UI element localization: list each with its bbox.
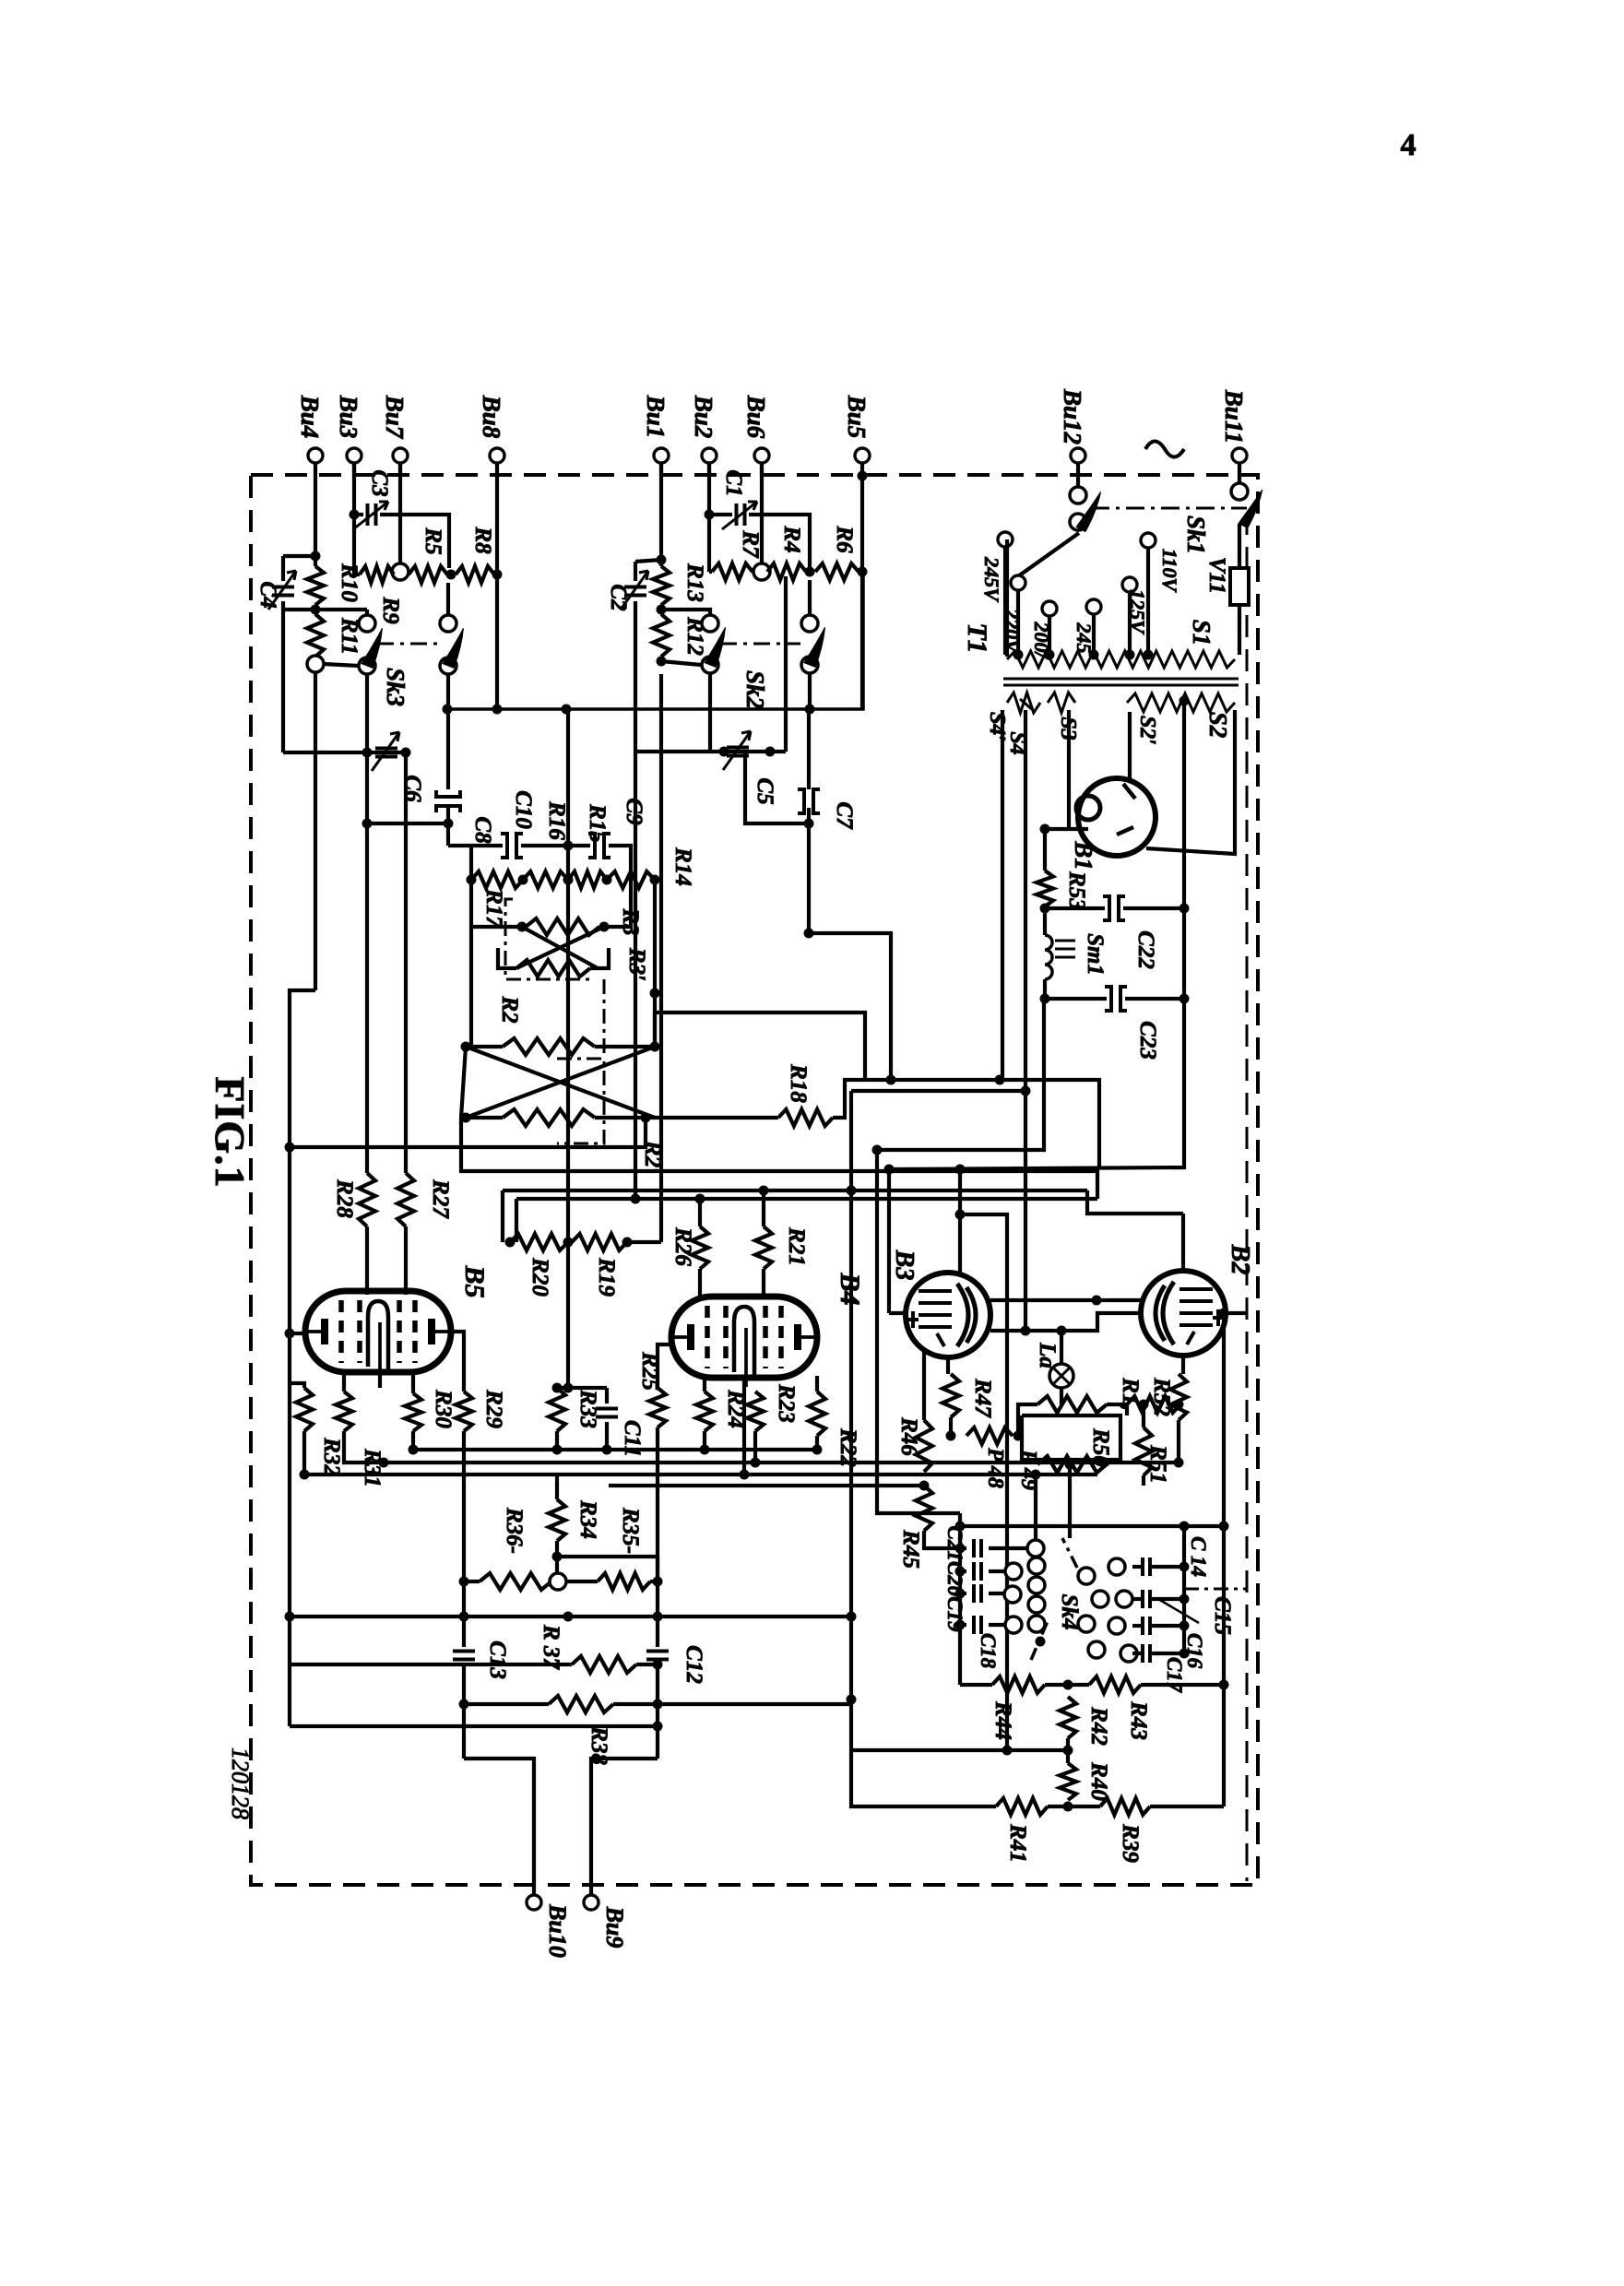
wire contact-b up — [808, 580, 812, 615]
wire Bu2 down — [707, 463, 711, 515]
wire C23 right — [1125, 997, 1184, 1001]
svg-text:R20: R20 — [528, 1257, 552, 1297]
wire Bu3 down — [352, 463, 356, 515]
switch Sk3 contact b — [440, 615, 456, 632]
wire C6 row — [283, 751, 406, 754]
svg-text:T1: T1 — [962, 622, 992, 653]
wire R24 bottom — [703, 1431, 706, 1450]
capacitor C6 — [375, 749, 397, 757]
node rail1753 left — [285, 1612, 295, 1622]
node mid 1410 — [1092, 1296, 1102, 1306]
wire R26 bottom — [698, 1269, 702, 1297]
svg-text:R3′: R3′ — [624, 947, 649, 981]
wire B5 left lead — [290, 1332, 307, 1335]
node R15b — [563, 875, 574, 885]
wire R37 right — [636, 1663, 658, 1666]
node bus1599 x1123 — [1031, 1470, 1041, 1480]
node bank top left — [955, 1522, 966, 1532]
node row left — [467, 875, 477, 885]
node rail1244 join R2p — [641, 1113, 651, 1123]
node C5 left — [719, 747, 729, 757]
node bus1572 R33 — [552, 1445, 563, 1455]
node R12 bottom — [657, 657, 667, 667]
tap circle 245V — [998, 532, 1013, 547]
svg-text:R17: R17 — [481, 888, 506, 929]
switch Sk2 contact b — [801, 615, 818, 632]
node R47 bottom — [946, 1431, 956, 1441]
wire Bu12 down — [1076, 463, 1080, 488]
node R26 top — [695, 1194, 705, 1204]
svg-text:B3: B3 — [890, 1250, 919, 1281]
rail y1300 left leg — [515, 1199, 518, 1242]
resistor R28 — [359, 1173, 375, 1226]
wire to B5 plate rail — [290, 990, 315, 1147]
svg-text:R52: R52 — [1149, 1377, 1174, 1416]
capacitor C22 — [1103, 896, 1109, 920]
wire C12 down — [656, 1663, 659, 1759]
node R20/R19 — [563, 1238, 574, 1248]
svg-text:R7: R7 — [738, 529, 763, 559]
switch Sk3 pivot a — [359, 657, 375, 674]
wire R2 loop to harness — [655, 1013, 865, 1080]
wire Bu3 to chain — [352, 515, 356, 574]
terminal Bu5 — [855, 448, 870, 463]
wire R3 left up — [471, 925, 522, 929]
wire C7 line to harness — [809, 933, 891, 1080]
capacitor C13 — [453, 1652, 475, 1660]
svg-text:V11: V11 — [1204, 557, 1229, 594]
wire R2 left stub — [466, 1045, 503, 1048]
wire C8node to C10 — [448, 844, 503, 847]
capacitor C21 — [974, 1539, 981, 1558]
switch Sk1 contact a — [1070, 487, 1086, 503]
svg-text:R21: R21 — [784, 1226, 809, 1266]
svg-text:La: La — [1035, 1342, 1060, 1368]
node bus/Bu8 — [492, 705, 503, 715]
wire R51 bottom — [1142, 1475, 1145, 1486]
svg-text:Bu8: Bu8 — [478, 395, 505, 439]
wire La down — [1060, 1388, 1063, 1404]
node R50 mid — [1065, 1460, 1075, 1470]
node right bank top — [1179, 1522, 1190, 1532]
svg-text:R23: R23 — [774, 1383, 799, 1423]
resistor R53 — [1037, 871, 1053, 906]
node bus/SK2pivot — [805, 705, 815, 715]
node right bank 1793 — [1179, 1649, 1190, 1659]
wire S2p to B1 top — [1128, 712, 1132, 782]
resistor R6 — [815, 563, 859, 580]
node C13 top — [459, 1612, 469, 1622]
wire bus to C7 — [807, 709, 811, 789]
node P48 right — [1014, 1431, 1024, 1441]
terminal Bu12 — [1071, 448, 1085, 463]
node R52 bus — [1174, 1458, 1184, 1468]
wire Bu1 down — [659, 463, 663, 566]
capacitor C15 — [1143, 1590, 1150, 1608]
wire C1 right lead — [749, 515, 810, 568]
transformer T1 secondary S2 — [1127, 693, 1235, 712]
wire R27 down to B5 — [404, 1226, 408, 1295]
resistor R22 — [809, 1392, 825, 1436]
resistor R45 — [916, 1486, 932, 1531]
node bus/CapC8line — [443, 705, 453, 715]
wire C5 right up to chain — [784, 576, 788, 752]
resistor R10 — [307, 566, 324, 605]
wire Bu2 to chain — [707, 515, 711, 572]
resistor R15b — [568, 871, 607, 888]
wire block left rail2 — [877, 1150, 960, 1513]
wire bank top rail — [960, 1524, 1184, 1528]
triode B2 — [1141, 1271, 1226, 1356]
capacitor C23 — [1105, 987, 1111, 1011]
wire tap 245V — [1003, 547, 1007, 655]
terminal Bu2 — [702, 448, 717, 463]
wire R28 down to B5 — [365, 1226, 369, 1295]
node right bank 1699 — [1179, 1562, 1190, 1572]
wire anode branch right — [960, 1214, 1007, 1750]
rail y1244 — [290, 1118, 646, 1147]
wire Bu11 down — [1238, 463, 1241, 484]
wire R12 to pivot a — [661, 661, 701, 665]
svg-text:R22: R22 — [836, 1427, 860, 1467]
node rail1753 right — [847, 1612, 857, 1622]
rail y1753 — [290, 1615, 851, 1618]
wire bank lead r 0 — [989, 1546, 1005, 1550]
transformer T1 secondary S3 — [1048, 693, 1075, 713]
resistor R8 — [456, 566, 494, 583]
bus y1572 — [413, 1448, 817, 1451]
node R14 left — [602, 875, 612, 885]
svg-text:R46: R46 — [896, 1416, 921, 1456]
svg-text:C10: C10 — [511, 790, 536, 829]
resistor R36 — [480, 1573, 551, 1590]
node bank left 1 — [955, 1567, 966, 1577]
node S4p end — [1021, 1086, 1031, 1096]
svg-text:R26: R26 — [670, 1226, 695, 1266]
node S3/B1 — [1040, 824, 1050, 835]
wire R3p right lead — [590, 948, 609, 968]
wire C11 bottom — [605, 1422, 609, 1450]
wire B5 right lead — [449, 1332, 464, 1346]
wire Bu5 down — [860, 476, 864, 709]
resistor R27 — [397, 1173, 414, 1226]
rectifier tube B1 — [1078, 778, 1156, 856]
wire R13 to Sk2 contact — [661, 610, 710, 615]
wiper contact a1 — [1028, 1558, 1045, 1574]
resistor R16 — [471, 871, 523, 888]
capacitor C8 — [436, 790, 460, 797]
wire B+ rail down — [877, 999, 1044, 1150]
svg-text:C 14: C 14 — [1187, 1536, 1210, 1577]
capacitor C2 — [624, 587, 646, 596]
wire R1 leads — [1018, 1404, 1037, 1436]
bus y1599 — [304, 1473, 1097, 1476]
resistor R33 — [549, 1388, 565, 1431]
wire R34 bottom — [555, 1541, 559, 1581]
wire B2 right — [1226, 1311, 1247, 1315]
wire R29 down — [462, 1431, 466, 1647]
wire pivot-b down to bus — [808, 673, 812, 709]
inner right dashed line — [1246, 513, 1249, 1881]
wire C3 right lead — [380, 515, 449, 568]
wire plate feedback down — [288, 1333, 291, 1726]
resistor R38 — [549, 1696, 613, 1712]
wire chain left — [354, 573, 360, 576]
svg-text:S2′: S2′ — [1135, 716, 1159, 745]
wire R52 down — [1177, 1420, 1180, 1436]
resistor R20 — [510, 1234, 568, 1250]
svg-text:S2: S2 — [1204, 712, 1232, 739]
wire B4 right lead — [815, 1376, 819, 1392]
wire R11 circle to pivot a — [324, 664, 359, 666]
svg-text:R15: R15 — [585, 803, 610, 843]
terminal Bu3 — [347, 448, 362, 463]
wire C7 node down — [807, 823, 811, 933]
wire S3 rail down — [1043, 829, 1047, 871]
node R22 bus — [812, 1445, 823, 1455]
switch Sk1 contact b — [1231, 483, 1248, 500]
wire tap 125V — [1128, 592, 1132, 655]
node bank left 2 — [955, 1589, 966, 1599]
wire to C21 contact — [1034, 1475, 1037, 1540]
node R40 bottom — [1063, 1802, 1073, 1812]
svg-text:R16: R16 — [544, 800, 569, 840]
smoothing choke Sm1 — [1045, 935, 1052, 979]
node bus1572 R30 — [409, 1445, 419, 1455]
resistor R15 — [523, 871, 568, 888]
wire R21 up — [762, 1190, 765, 1226]
tap circle 145V — [1086, 599, 1101, 614]
svg-text:Sm1: Sm1 — [1083, 933, 1108, 976]
wire R25 down — [656, 1427, 659, 1647]
wire x616 to R33 — [566, 1242, 570, 1388]
wire R3 right frame — [604, 880, 631, 927]
svg-text:FIG.1: FIG.1 — [207, 1076, 254, 1188]
wire Bu7 down — [398, 463, 402, 564]
wire row left down — [469, 880, 473, 927]
capacitor C10 — [501, 834, 507, 858]
svg-text:R29: R29 — [481, 1389, 506, 1428]
resistor R46 — [916, 1420, 932, 1472]
wire harness B left leg — [849, 1091, 853, 1700]
svg-text:C1: C1 — [721, 469, 746, 496]
svg-text:C2: C2 — [606, 584, 631, 610]
terminal Bu11 — [1232, 448, 1247, 463]
transformer T1 secondary S4 — [1007, 693, 1040, 713]
wire C2 bottom lead — [634, 601, 637, 752]
fuse V11 — [1230, 568, 1249, 605]
wire choke down — [1043, 908, 1047, 935]
junction circle R36/R35 — [550, 1573, 566, 1590]
wire plate feedback across — [290, 1724, 658, 1728]
svg-text:C11: C11 — [620, 1420, 645, 1457]
node R3 left — [517, 922, 528, 932]
svg-text:C5: C5 — [753, 777, 777, 804]
contact right r3 — [1078, 1616, 1095, 1632]
wire row left stub — [469, 846, 473, 880]
node La top — [1057, 1326, 1067, 1336]
node S2 tap — [1179, 696, 1190, 706]
wire Bu8 down — [495, 476, 499, 709]
wiper contact a4 — [1028, 1616, 1045, 1632]
node R5/R8 — [446, 570, 456, 580]
resistor R39 — [1100, 1798, 1150, 1815]
wire C9 right lead — [609, 846, 631, 880]
resistor R31 — [336, 1392, 352, 1431]
svg-text:B1: B1 — [1070, 840, 1097, 871]
node R2 right — [650, 1042, 660, 1052]
wire S3 to B1 — [1041, 827, 1088, 831]
svg-text:R18: R18 — [786, 1063, 811, 1103]
pointer C15 — [1158, 1599, 1199, 1623]
wire C1 left lead — [709, 513, 732, 516]
wire cross d — [466, 1047, 655, 1118]
wire pivot-a to C8 node — [367, 822, 448, 825]
resistor R43 — [1089, 1676, 1141, 1693]
resistor R19 — [572, 1234, 627, 1250]
rail y1291 — [503, 1189, 1087, 1192]
wire S4p down rail — [1024, 710, 1027, 1331]
rail y1244 left leg — [288, 1147, 291, 1333]
wire R33 bottom — [555, 1431, 559, 1450]
node C8 bottom — [444, 819, 454, 829]
wire to C2 — [635, 560, 661, 562]
node C2 rail end — [631, 1194, 641, 1204]
svg-text:R6: R6 — [832, 525, 857, 553]
capacitor C4 — [272, 587, 294, 596]
wire right bank in 1763 — [1132, 1624, 1142, 1628]
wire R37 left — [290, 1663, 572, 1666]
svg-text:Bu11: Bu11 — [1220, 389, 1248, 444]
wire bank lead r 2 — [989, 1592, 1005, 1595]
svg-text:R39: R39 — [1118, 1823, 1143, 1863]
capacitor C11 — [596, 1409, 618, 1417]
wire bank down — [958, 1625, 962, 1685]
node R24 bus — [700, 1445, 710, 1455]
dash-dot wiper left — [1031, 1621, 1048, 1660]
capacitor C19 — [974, 1584, 981, 1603]
svg-text:Bu10: Bu10 — [544, 1903, 571, 1958]
wire bank left rail — [958, 1513, 962, 1625]
svg-text:C9: C9 — [622, 798, 646, 825]
wire R47 stub — [949, 1417, 953, 1436]
node R14 right — [650, 875, 660, 885]
svg-text:C22: C22 — [1133, 930, 1158, 969]
capacitor C18 — [974, 1616, 981, 1634]
node R8/Bu8 — [492, 570, 503, 580]
wire R44 right — [1045, 1683, 1089, 1687]
node R4/R6 — [805, 567, 815, 577]
resistor R29 — [456, 1392, 472, 1431]
wire stub Bu7 — [398, 463, 402, 476]
wire harness B — [851, 1089, 1025, 1093]
node bus1572 C11 — [602, 1445, 612, 1455]
wire R2p right — [595, 1116, 778, 1119]
svg-text:R8: R8 — [470, 526, 495, 554]
node C3 left — [350, 510, 360, 520]
node bus/x616 — [562, 705, 572, 715]
resistor R26 — [692, 1226, 708, 1269]
contact C21 — [1027, 1540, 1044, 1557]
svg-text:R45: R45 — [898, 1529, 923, 1569]
wire R52 to bus — [1177, 1436, 1180, 1463]
tap junction 1138 — [1045, 650, 1055, 660]
switch Sk2 contact a — [702, 615, 718, 632]
wire R53 to C22 — [1045, 906, 1105, 910]
node C6 right — [401, 748, 411, 758]
resistor R51 — [1127, 1396, 1180, 1413]
dash-dot R17 box — [505, 899, 590, 979]
contact C17 side — [1120, 1645, 1137, 1662]
wire stub Bu3 — [352, 463, 356, 476]
node x305 rail1244 — [285, 1143, 295, 1153]
node Bplus bundle — [872, 1145, 883, 1155]
svg-text:C17: C17 — [1163, 1657, 1186, 1694]
switch Sk1 pivot a — [1070, 514, 1086, 530]
node B3 top — [955, 1210, 966, 1220]
wire right bank in 1734 — [1132, 1597, 1142, 1601]
resistor R32 — [296, 1388, 313, 1431]
node R36 left — [459, 1577, 469, 1587]
resistor R4 — [767, 563, 806, 580]
wire R42 side link — [851, 1748, 1068, 1752]
node B5 plate x314 — [285, 1329, 295, 1339]
node C7 line end — [804, 929, 814, 939]
capacitor C5 — [727, 748, 749, 756]
node bus1599 R32 — [300, 1470, 310, 1480]
wire Bu4 line down long — [314, 672, 317, 990]
node right bank 1763 — [1179, 1621, 1190, 1631]
svg-text:R43: R43 — [1126, 1700, 1151, 1740]
wire B5 pin R31 — [342, 1372, 346, 1392]
wire HT bundle down — [887, 1169, 891, 1313]
wire C4 top lead — [281, 556, 285, 581]
node R19 right — [622, 1238, 633, 1248]
resistor R47 — [942, 1374, 959, 1417]
wiper contact a3 — [1028, 1596, 1045, 1613]
wire R34 top — [555, 1475, 559, 1499]
wire R32 top — [290, 1383, 304, 1388]
terminal Bu6 — [754, 448, 769, 463]
wire R30 bottom — [411, 1431, 415, 1450]
svg-text:R14: R14 — [670, 847, 695, 886]
node B2 right rail — [1219, 1309, 1229, 1319]
wire Sk1 arrow a to tap — [1018, 533, 1079, 576]
capacitor C9 — [588, 834, 595, 858]
wire right bank 1793 — [1151, 1652, 1184, 1655]
node R3 right — [599, 922, 610, 932]
wire R44 left — [960, 1683, 992, 1687]
wire C3 left lead — [354, 513, 363, 516]
wire C5 row — [635, 750, 786, 753]
wire chain start — [709, 570, 712, 574]
wire C4 to R10 node — [283, 608, 315, 611]
wire R32 bottom — [302, 1431, 306, 1475]
wire R43 right — [1141, 1683, 1224, 1687]
svg-text:Bu4: Bu4 — [296, 395, 324, 439]
svg-text:220V: 220V — [1001, 608, 1024, 655]
wire bank lead 2 — [960, 1592, 966, 1595]
node C22 right — [1179, 904, 1190, 914]
wire cross b — [516, 927, 604, 968]
node pivot-a C6 — [362, 748, 373, 758]
wire R2 left to R2p left — [461, 1047, 466, 1118]
wire bank lead r 3 — [989, 1623, 1005, 1627]
wire Sk3 pivot a down — [365, 674, 369, 823]
svg-text:R35-: R35- — [618, 1507, 643, 1554]
terminal Bu9 — [584, 1895, 599, 1910]
wire tap 110V — [1146, 548, 1150, 655]
